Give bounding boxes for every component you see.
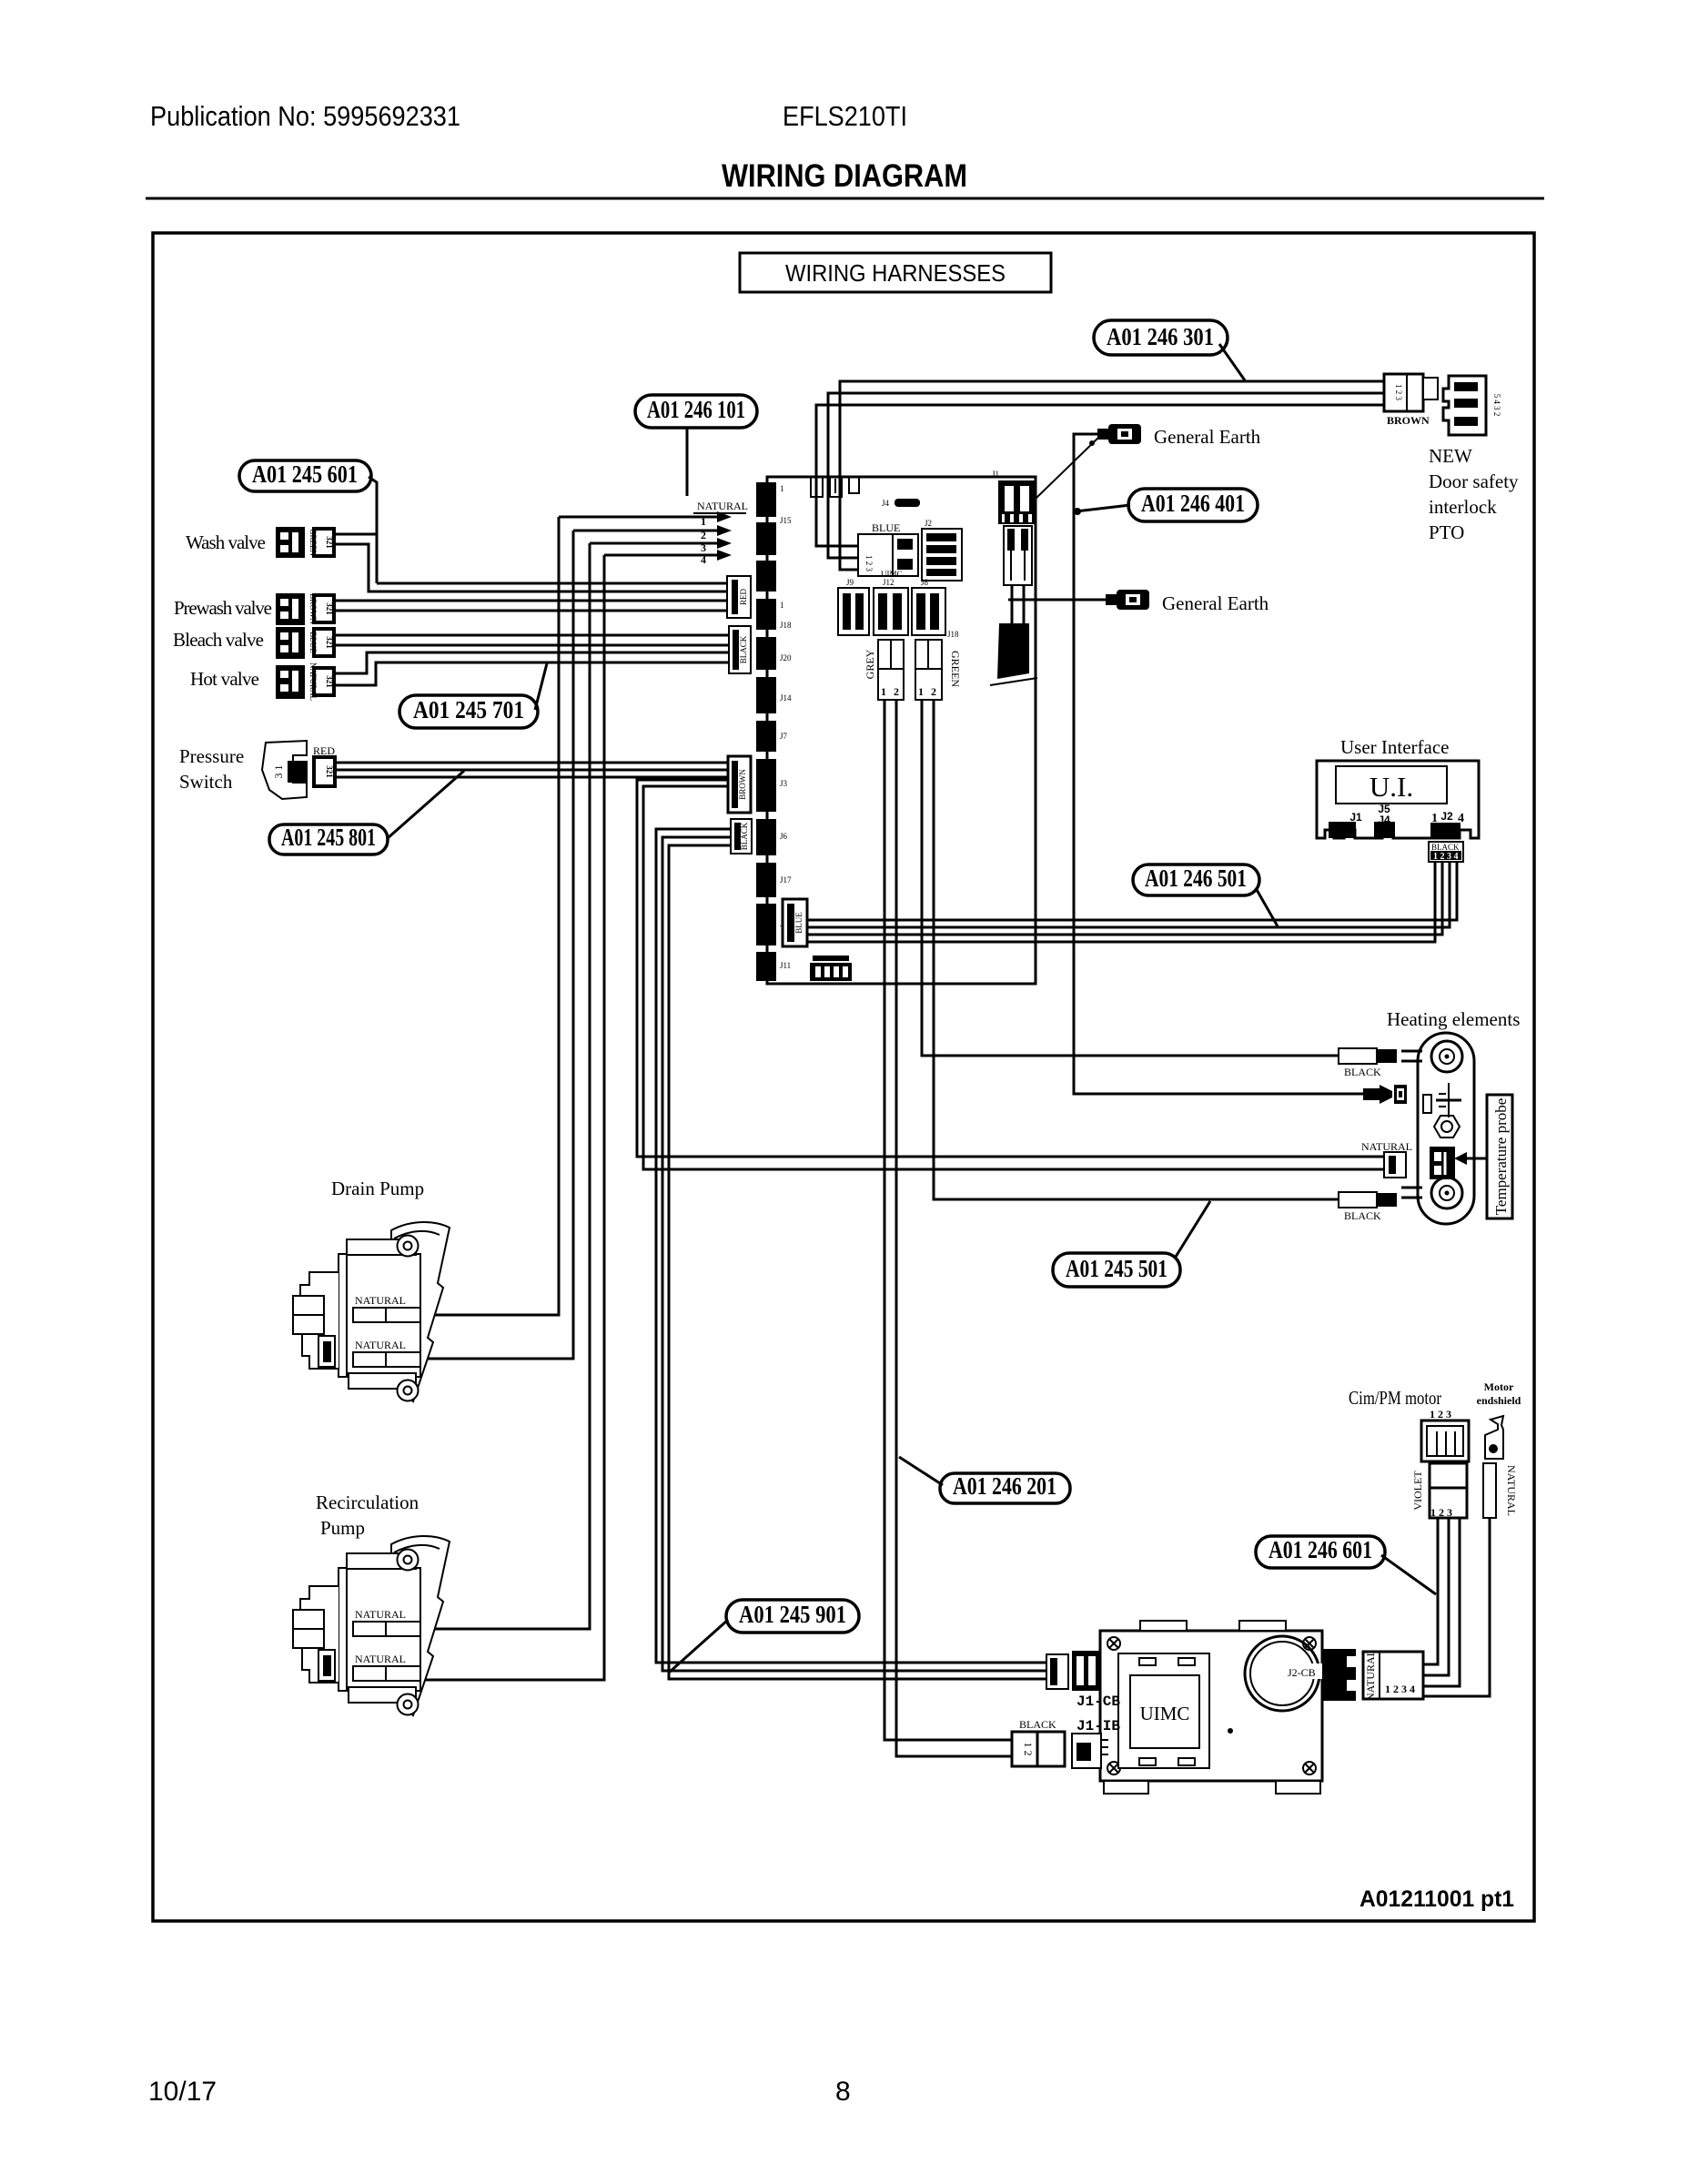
- svg-text:A01 245 601: A01 245 601: [252, 460, 358, 488]
- label Hot valve: [190, 668, 259, 690]
- svg-text:General Earth: General Earth: [1162, 592, 1269, 614]
- wire drain pump 1 riser: [422, 517, 559, 1315]
- svg-text:J20: J20: [780, 653, 792, 662]
- callout oval A01 246 401: [1128, 489, 1258, 521]
- label Drain Pump: [331, 1178, 424, 1199]
- svg-text:BLACK: BLACK: [1431, 843, 1460, 852]
- label Wash valve: [186, 531, 266, 553]
- callout oval A01 246 301: [1094, 320, 1228, 355]
- label Pressure Switch: [179, 745, 244, 793]
- label NATURAL harness at board: [693, 500, 748, 513]
- UIMC module body: [1100, 1621, 1326, 1794]
- pointer wire from A01 246 301: [1219, 344, 1245, 380]
- svg-text:1 2 3: 1 2 3: [1430, 1408, 1451, 1421]
- wire wash valve pin 2: [334, 544, 728, 591]
- board edge connector J19: [756, 904, 792, 945]
- prewash valve connector: [276, 593, 334, 625]
- wire endshield natural: [1423, 1518, 1490, 1696]
- board top connector bumps: [811, 477, 859, 497]
- board connector BLUE 123: [858, 521, 918, 576]
- svg-text:BROWN: BROWN: [1387, 414, 1430, 427]
- callout oval A01 245 901: [726, 1600, 859, 1633]
- svg-text:Drain Pump: Drain Pump: [331, 1178, 424, 1199]
- svg-text:BLUE: BLUE: [872, 521, 900, 534]
- svg-text:321: 321: [325, 675, 334, 688]
- wire heating natural 2 from BROWN block: [643, 786, 1386, 1169]
- page title WIRING DIAGRAM: [722, 158, 967, 194]
- wire board J15 pin 3 with arrow: [590, 538, 732, 554]
- wire UI harness 4: [807, 862, 1435, 942]
- wire prewash valve pin 2: [334, 610, 728, 612]
- wire GREY 1 to BLACK 1 2 connector: [884, 701, 1012, 1740]
- WIRING HARNESSES title box: [740, 253, 1051, 292]
- board connector J4: [882, 499, 920, 508]
- svg-text:A01 246 601: A01 246 601: [1269, 1536, 1372, 1563]
- drawing number label: [1359, 1886, 1514, 1912]
- svg-text:1 2: 1 2: [1022, 1743, 1035, 1756]
- svg-text:J1-IB: J1-IB: [1076, 1718, 1120, 1734]
- general earth terminal 2: [1106, 590, 1149, 610]
- endshield harness connector NATURAL: [1483, 1463, 1518, 1518]
- wire wash valve pin 1: [334, 534, 728, 583]
- wire hot valve pin 2: [334, 662, 728, 685]
- svg-text:J14: J14: [780, 693, 792, 703]
- svg-text:BLACK: BLACK: [1344, 1209, 1381, 1222]
- board edge connector J14: [756, 677, 792, 713]
- svg-text:1 2 3 4: 1 2 3 4: [1433, 852, 1459, 862]
- svg-text:J15: J15: [780, 516, 792, 525]
- svg-text:RED: RED: [739, 588, 748, 605]
- svg-text:J6: J6: [780, 832, 788, 841]
- svg-text:GREEN: GREEN: [308, 529, 318, 556]
- connector block BLUE to UI: [783, 899, 807, 946]
- motor harness connector VIOLET: [1411, 1463, 1467, 1519]
- svg-text:PTO: PTO: [1429, 521, 1464, 543]
- callout oval A01 245 501: [1053, 1253, 1180, 1287]
- svg-text:1: 1: [918, 685, 924, 698]
- svg-text:endshield: endshield: [1477, 1394, 1521, 1407]
- svg-text:2: 2: [931, 685, 936, 698]
- board connector J2: [922, 519, 962, 581]
- user interface module U.I.: [1317, 761, 1479, 838]
- wire board J15 pin 1 with arrow: [559, 511, 732, 528]
- board edge connector J11: [756, 952, 791, 981]
- label Heating elements: [1387, 1008, 1520, 1030]
- svg-text:BLACK: BLACK: [739, 635, 748, 663]
- label Motor endshield: [1477, 1380, 1521, 1407]
- svg-text:Pump: Pump: [320, 1517, 365, 1539]
- title rule: [146, 197, 1544, 200]
- wire door lock harness 2: [828, 393, 1384, 558]
- svg-text:NATURAL: NATURAL: [308, 662, 318, 701]
- svg-text:A01 245 801: A01 245 801: [281, 824, 376, 851]
- board connector group UIMC J12: [874, 570, 908, 635]
- svg-text:321: 321: [325, 602, 334, 615]
- label Prewash valve: [174, 597, 272, 619]
- board edge connector J15: [756, 482, 792, 591]
- pointer wire from A01 245 901: [669, 1620, 728, 1673]
- svg-text:J2: J2: [925, 519, 932, 528]
- callout oval A01 246 501: [1133, 864, 1259, 895]
- svg-text:User Interface: User Interface: [1340, 736, 1450, 758]
- svg-text:321: 321: [325, 636, 334, 649]
- svg-text:J18: J18: [780, 621, 792, 630]
- wire heating natural 1 from BROWN block: [637, 780, 1386, 1157]
- svg-text:Hot valve: Hot valve: [190, 668, 259, 690]
- wash valve connector: [276, 527, 334, 558]
- pointer wire from A01 246 601: [1381, 1555, 1436, 1594]
- svg-text:VIOLET: VIOLET: [1411, 1471, 1424, 1511]
- wire GREY 2 to BLACK 1 2 connector: [896, 701, 1012, 1756]
- svg-text:BLACK: BLACK: [1344, 1066, 1381, 1078]
- label User Interface: [1340, 736, 1450, 758]
- UIMC J1-CB connector: [1046, 1651, 1120, 1710]
- wire pressure switch pin 3: [335, 776, 728, 779]
- svg-text:Cim/PM motor: Cim/PM motor: [1349, 1387, 1441, 1409]
- svg-text:Bleach valve: Bleach valve: [173, 629, 264, 651]
- svg-text:A01 246 301: A01 246 301: [1107, 323, 1214, 350]
- svg-text:A01 245 901: A01 245 901: [739, 1601, 846, 1628]
- wire bleach valve pin 2: [334, 644, 728, 647]
- svg-text:321: 321: [325, 765, 334, 778]
- UI BLACK 1234 connector: [1429, 842, 1463, 862]
- svg-text:A01 245 501: A01 245 501: [1066, 1255, 1167, 1282]
- svg-text:J1: J1: [1349, 811, 1362, 824]
- wire board J15 pin 2 with arrow: [573, 525, 732, 541]
- heating elements body: [1401, 1033, 1474, 1224]
- temperature probe label box: [1454, 1095, 1512, 1218]
- svg-text:GREY: GREY: [864, 649, 876, 679]
- wire motor pin 1: [1423, 1518, 1438, 1664]
- motor connector pin labels 1 2 3: [1430, 1408, 1451, 1421]
- svg-text:1: 1: [881, 685, 886, 698]
- svg-text:BLUE: BLUE: [794, 912, 804, 934]
- heating NATURAL connector: [1361, 1140, 1412, 1178]
- pointer wire from A01 246 201: [899, 1457, 943, 1485]
- svg-text:1 2 3: 1 2 3: [864, 555, 874, 572]
- pointer wire from A01 245 501: [1176, 1201, 1210, 1257]
- svg-text:Temperature probe: Temperature probe: [1492, 1098, 1510, 1216]
- wire hot valve pin 1: [334, 652, 728, 673]
- svg-text:J18: J18: [947, 630, 959, 639]
- svg-text:Prewash valve: Prewash valve: [174, 597, 272, 619]
- door lock inner connector: [1004, 526, 1032, 585]
- wire board J15 pin 4 with arrow: [604, 550, 732, 566]
- svg-text:A01 246 401: A01 246 401: [1141, 490, 1245, 517]
- connector block BLACK upper: [729, 626, 751, 673]
- pointer wire from A01 246 401: [1074, 505, 1130, 515]
- svg-text:J2-CB: J2-CB: [1288, 1666, 1316, 1679]
- label Bleach valve: [173, 629, 264, 651]
- svg-text:NATURAL: NATURAL: [1361, 1140, 1412, 1153]
- svg-text:2: 2: [894, 685, 899, 698]
- svg-text:NATURAL: NATURAL: [355, 1339, 406, 1351]
- BLACK 1 2 connector at UIMC: [1012, 1718, 1065, 1766]
- svg-text:J4: J4: [882, 499, 890, 508]
- heating top BLACK faston: [1339, 1048, 1397, 1078]
- svg-text:J11: J11: [780, 961, 791, 970]
- callout oval A01 246 101: [635, 395, 757, 428]
- pointer wire from A01 245 801: [388, 771, 464, 838]
- svg-text:8: 8: [835, 2077, 851, 2107]
- svg-text:BLACK: BLACK: [1019, 1718, 1056, 1731]
- svg-text:1 2 3: 1 2 3: [1394, 384, 1403, 401]
- svg-text:Door safety: Door safety: [1429, 470, 1519, 492]
- svg-text:J1-CB: J1-CB: [1076, 1694, 1120, 1710]
- wire recirculation pump 2 riser: [422, 555, 604, 1680]
- page header model number: [783, 100, 907, 132]
- label Cim/PM motor: [1349, 1387, 1441, 1409]
- svg-text:J17: J17: [780, 875, 792, 885]
- diagram border frame: [153, 233, 1534, 1921]
- label Recirculation Pump: [316, 1491, 419, 1539]
- page header publication number: [150, 100, 460, 132]
- svg-text:NATURAL: NATURAL: [1505, 1465, 1518, 1516]
- svg-text:BROWN: BROWN: [738, 769, 747, 800]
- connector block BROWN pressure: [728, 756, 751, 813]
- board edge connector J17: [756, 863, 792, 897]
- wire motor pin 3: [1423, 1518, 1460, 1686]
- door lock black wedge: [990, 623, 1037, 685]
- svg-text:A01 245 701: A01 245 701: [413, 696, 524, 723]
- board connector J1: [992, 470, 1036, 524]
- svg-text:Recirculation: Recirculation: [316, 1491, 419, 1513]
- wire motor pin 2: [1423, 1518, 1449, 1675]
- callout oval A01 245 801: [269, 824, 388, 854]
- pressure switch body: [262, 741, 335, 799]
- svg-text:1 2 3 4: 1 2 3 4: [1385, 1683, 1415, 1695]
- svg-text:A01 246 501: A01 246 501: [1145, 864, 1247, 892]
- svg-text:BROWN: BROWN: [308, 593, 318, 624]
- svg-text:1: 1: [780, 601, 784, 610]
- board connector GREY: [864, 640, 904, 700]
- wire UIMC J1-CB 2 from BLACK block: [662, 837, 1046, 1671]
- svg-text:NATURAL: NATURAL: [355, 1294, 406, 1307]
- wire general earth riser to spade terminal: [1074, 434, 1363, 1094]
- wire recirculation pump 1 riser: [422, 543, 590, 1629]
- wire door lock harness 1: [816, 405, 1384, 546]
- svg-text:J12: J12: [883, 578, 895, 587]
- svg-text:J3: J3: [780, 779, 788, 788]
- svg-text:A01 246 201: A01 246 201: [953, 1472, 1056, 1500]
- svg-text:UIMC: UIMC: [1140, 1703, 1190, 1724]
- recirculation pump assembly: [293, 1536, 450, 1715]
- svg-text:BLUE: BLUE: [308, 632, 318, 653]
- board connector GREEN: [915, 640, 962, 700]
- motor endshield switch icon: [1485, 1416, 1503, 1459]
- svg-text:Motor: Motor: [1484, 1380, 1514, 1393]
- svg-text:Switch: Switch: [179, 771, 233, 793]
- hot valve connector: [276, 662, 334, 701]
- svg-text:A01 246 101: A01 246 101: [647, 396, 745, 423]
- wire drain pump 2 riser: [422, 531, 573, 1359]
- footer date: [148, 2077, 217, 2107]
- wire prewash valve pin 1: [334, 600, 728, 602]
- drain pump assembly: [293, 1222, 450, 1401]
- UIMC NATURAL 1 2 3 4 connector: [1363, 1650, 1423, 1701]
- callout oval A01 245 701: [399, 695, 538, 728]
- svg-text:1: 1: [701, 515, 706, 528]
- pointer wire from A01 246 501: [1256, 888, 1278, 926]
- svg-text:J9: J9: [846, 578, 854, 587]
- svg-text:GREEN: GREEN: [949, 651, 962, 687]
- pointer wire from A01 245 601: [369, 477, 377, 583]
- wire pressure switch pin 2: [335, 769, 728, 772]
- svg-text:J7: J7: [780, 732, 788, 741]
- door lock stem: [1012, 585, 1024, 624]
- svg-text:3: 3: [701, 541, 706, 554]
- wire UIMC J1-CB 1 from BLACK block: [656, 829, 1046, 1663]
- svg-text:4: 4: [701, 553, 706, 566]
- wire UI harness 1: [807, 862, 1457, 920]
- wire GREEN 2 to heating element bottom: [934, 701, 1339, 1199]
- svg-text:Publication No: 5995692331: Publication No: 5995692331: [150, 100, 460, 132]
- general earth terminal 1: [1097, 424, 1141, 444]
- svg-text:NATURAL: NATURAL: [697, 500, 748, 512]
- wire J1 to general earth diagonal: [1036, 437, 1099, 498]
- svg-text:General Earth: General Earth: [1154, 426, 1261, 448]
- connector block BLACK lower: [731, 819, 752, 854]
- UIMC J1-IB connector: [1072, 1718, 1120, 1768]
- label General Earth 2: [1162, 592, 1269, 614]
- board connector group UIMC J8: [912, 578, 959, 639]
- door safety interlock connector: [1443, 376, 1501, 435]
- board edge connector J7: [756, 721, 788, 752]
- wire general earth 2 stub from door lock: [1008, 599, 1111, 602]
- svg-text:2: 2: [701, 529, 706, 541]
- svg-text:A01211001 pt1: A01211001 pt1: [1359, 1886, 1514, 1912]
- wire UI harness 2: [807, 862, 1450, 927]
- wire bleach valve pin 1: [334, 634, 728, 637]
- board connector group UIMC J9: [838, 578, 869, 635]
- svg-text:J8: J8: [921, 578, 929, 587]
- board J11 comb connector: [810, 955, 852, 981]
- svg-text:321: 321: [325, 536, 334, 549]
- wire UIMC J1-CB 3 from BLACK block: [669, 845, 1046, 1679]
- svg-text:EFLS210TI: EFLS210TI: [783, 100, 907, 132]
- callout oval A01 245 601: [239, 460, 371, 491]
- svg-text:NATURAL: NATURAL: [1364, 1650, 1377, 1701]
- svg-text:1 2 3: 1 2 3: [1430, 1506, 1452, 1519]
- svg-text:3 1: 3 1: [272, 765, 285, 779]
- svg-text:J2: J2: [1440, 810, 1453, 823]
- pointer wire from A01 246 101: [686, 428, 689, 496]
- svg-text:Pressure: Pressure: [179, 745, 244, 767]
- svg-text:RED: RED: [313, 744, 335, 757]
- label General Earth 1: [1154, 426, 1261, 448]
- svg-text:interlock: interlock: [1429, 496, 1497, 518]
- heating earth spade terminal: [1363, 1085, 1407, 1104]
- svg-text:WIRING DIAGRAM: WIRING DIAGRAM: [722, 158, 967, 194]
- UIMC J2-CB connector: [1322, 1649, 1359, 1701]
- svg-text:1: 1: [780, 484, 784, 493]
- svg-text:J1: J1: [992, 470, 999, 479]
- connector block RED: [727, 576, 751, 618]
- wire UI harness 3: [807, 862, 1442, 935]
- svg-text:WIRING HARNESSES: WIRING HARNESSES: [785, 259, 1006, 287]
- svg-text:5 4 3 2: 5 4 3 2: [1492, 394, 1501, 417]
- wire GREEN 1 to heating element top: [922, 701, 1339, 1056]
- board edge connector J6: [756, 819, 788, 855]
- svg-text:NEW: NEW: [1429, 445, 1472, 467]
- pointer wire from A01 245 701: [535, 663, 547, 710]
- board edge connector J3: [756, 759, 788, 812]
- board edge connector J20: [756, 637, 792, 670]
- wire door lock harness 3: [840, 381, 1384, 570]
- svg-text:BLACK: BLACK: [740, 822, 749, 850]
- wire pressure switch pin 1: [335, 762, 728, 764]
- svg-text:10/17: 10/17: [148, 2077, 217, 2107]
- callout oval A01 246 601: [1256, 1536, 1385, 1568]
- footer page number: [835, 2077, 851, 2107]
- Cim/PM motor connector: [1421, 1421, 1469, 1461]
- main control board outline: [767, 477, 1036, 984]
- svg-text:Heating elements: Heating elements: [1387, 1008, 1520, 1030]
- svg-text:U.I.: U.I.: [1370, 771, 1413, 803]
- BROWN door harness connector: [1384, 374, 1438, 427]
- svg-text:Wash valve: Wash valve: [186, 531, 266, 553]
- label NEW Door safety interlock PTO: [1429, 445, 1519, 543]
- heating bottom BLACK faston: [1339, 1192, 1397, 1222]
- bleach valve connector: [276, 627, 334, 659]
- callout oval A01 246 201: [940, 1472, 1070, 1503]
- board edge connector J18: [756, 599, 792, 630]
